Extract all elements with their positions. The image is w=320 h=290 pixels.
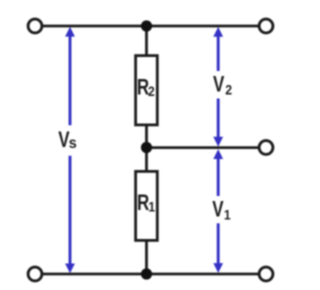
wire bottom rail <box>42 273 259 276</box>
arrow Vs <box>65 27 75 273</box>
svg-text:R: R <box>137 191 149 216</box>
svg-text:s: s <box>69 134 77 152</box>
wire top rail <box>42 25 259 28</box>
wire middle rail <box>147 146 259 149</box>
svg-text:1: 1 <box>224 207 231 223</box>
wire vertical branch <box>145 26 148 274</box>
label V1 <box>212 197 230 222</box>
label R2 <box>137 75 155 100</box>
terminal bottom-left <box>28 267 42 281</box>
svg-text:1: 1 <box>148 199 155 215</box>
junction node middle <box>141 142 152 153</box>
junction node top <box>141 20 152 31</box>
resistor R1 <box>136 171 158 240</box>
label Vs <box>58 128 77 153</box>
terminal middle-right <box>259 141 273 155</box>
arrow V1 <box>213 149 223 273</box>
junction node bottom <box>141 268 152 279</box>
label R1 <box>137 191 155 216</box>
label V2 <box>213 72 232 97</box>
terminal top-right <box>259 19 273 33</box>
svg-text:2: 2 <box>225 82 232 98</box>
arrow V2 <box>213 27 223 147</box>
svg-text:V: V <box>212 197 224 222</box>
terminal top-left <box>28 19 42 33</box>
svg-text:2: 2 <box>148 83 155 99</box>
svg-text:V: V <box>213 72 225 97</box>
terminal bottom-right <box>259 267 273 281</box>
resistor R2 <box>136 56 158 125</box>
